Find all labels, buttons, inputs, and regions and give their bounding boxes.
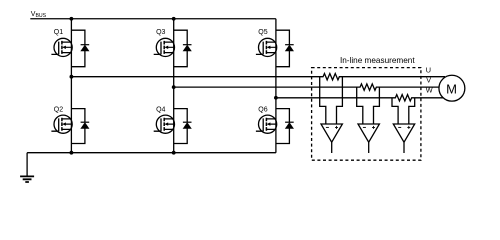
svg-text:Q1: Q1	[54, 29, 63, 36]
svg-text:In-line measurement: In-line measurement	[340, 56, 415, 65]
svg-text:Q2: Q2	[54, 106, 63, 113]
svg-text:W: W	[426, 86, 433, 95]
svg-text:Q5: Q5	[258, 29, 267, 36]
svg-text:V: V	[426, 75, 431, 84]
svg-text:M: M	[446, 81, 457, 96]
svg-text:Q6: Q6	[258, 106, 267, 113]
svg-text:U: U	[426, 66, 431, 75]
svg-text:Q4: Q4	[156, 106, 165, 113]
svg-text:VBUS: VBUS	[31, 11, 47, 19]
svg-text:Q3: Q3	[156, 29, 165, 36]
